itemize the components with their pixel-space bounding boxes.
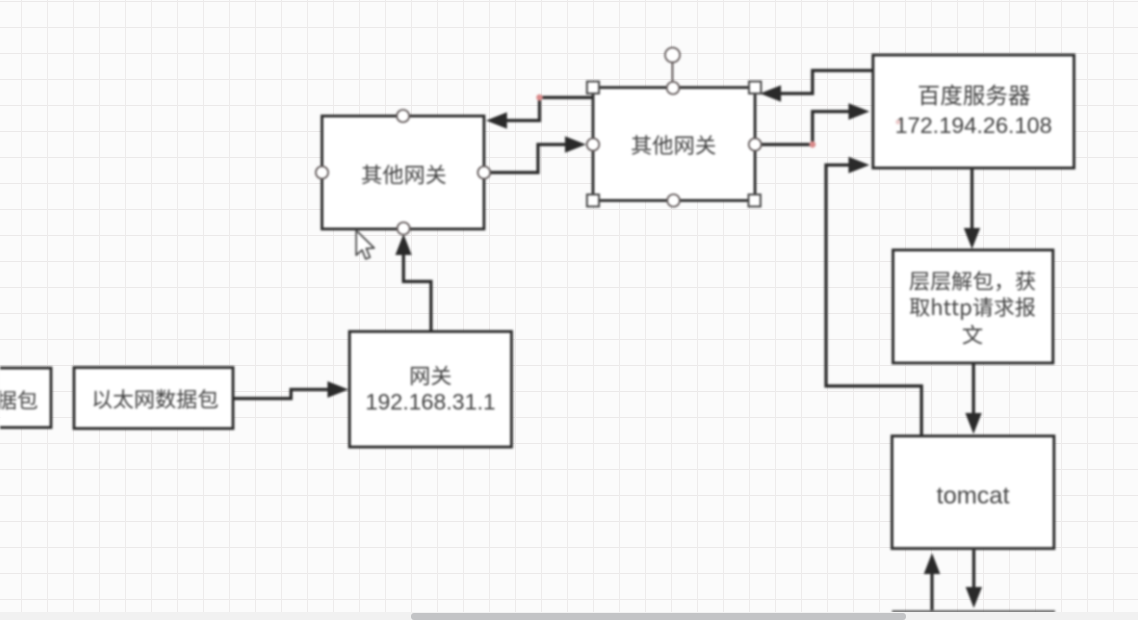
arrowhead into baidu-server left lower bbox=[849, 157, 870, 173]
wire: ethernet-packet to gateway bbox=[233, 390, 330, 399]
node: tomcat box bbox=[892, 436, 1054, 549]
wire: baidu-server back to other-gateway-2 (reply) bbox=[777, 71, 873, 94]
node: baidu-server box bbox=[873, 55, 1074, 168]
label: clipped box text 据包 bbox=[0, 390, 37, 409]
handle: other-gateway-1 left connection point bbox=[316, 166, 328, 178]
handle: other-gateway-2 top-middle bbox=[667, 82, 679, 94]
scrollbar thumb bbox=[411, 613, 906, 620]
svg-text:192.168.31.1: 192.168.31.1 bbox=[365, 390, 495, 415]
node: other-gateway-1 box bbox=[322, 116, 484, 229]
arrowhead into unpack box top bbox=[964, 228, 980, 249]
node: gateway box bbox=[350, 332, 512, 448]
wire: other-gateway-2 to baidu-server (request) bbox=[759, 112, 852, 145]
label: unpack line2 取http请求报 bbox=[910, 297, 1035, 320]
label: baidu-server line1 百度服务器 bbox=[919, 85, 1030, 106]
node: unpack box bbox=[893, 250, 1053, 363]
arrowhead into other-gateway-1 bottom bbox=[395, 234, 411, 255]
scrollbar track bbox=[0, 612, 1138, 620]
arrowhead into other-gateway-2 top-right bbox=[760, 85, 781, 101]
label: other-gateway-1 text 其他网关 bbox=[362, 165, 446, 185]
handle: other-gateway-2 right-middle bbox=[749, 138, 761, 150]
arrowhead into bottom box top bbox=[966, 587, 982, 608]
handle: other-gateway-2 bottom-middle bbox=[667, 194, 679, 206]
handle: other-gateway-2 bottom-right corner bbox=[749, 195, 761, 207]
endpoint dot on request wire to baidu-server bbox=[809, 141, 815, 147]
mouse cursor pointer bbox=[356, 230, 374, 259]
label: unpack line1 层层解包，获 bbox=[910, 271, 1036, 291]
label: unpack line3 文 bbox=[963, 325, 983, 345]
node: clipped data-packet box at left edge bbox=[0, 368, 51, 428]
wire: other-gateway-2 back to other-gateway-1 (reply) bbox=[505, 98, 592, 121]
handle: other-gateway-2 top-left corner bbox=[587, 82, 599, 94]
handle: other-gateway-2 rotation handle bbox=[665, 48, 680, 63]
arrowhead into tomcat bottom bbox=[924, 553, 940, 574]
arrowhead into baidu-server left upper bbox=[849, 103, 870, 119]
wire: unpack box down to tomcat bbox=[972, 362, 975, 414]
arrowhead into other-gateway-1 right bbox=[486, 112, 507, 128]
wire: gateway up to other-gateway-1 bbox=[404, 250, 432, 333]
svg-text:172.194.26.108: 172.194.26.108 bbox=[895, 113, 1052, 138]
handle: other-gateway-1 right connection point bbox=[478, 166, 490, 178]
arrowhead into gateway left bbox=[328, 381, 349, 397]
wire: baidu-server down to unpack box bbox=[970, 166, 973, 231]
endpoint dot on reply wire near other-gateway-2 bbox=[536, 94, 542, 100]
node: ethernet-packet box bbox=[74, 368, 233, 429]
handle: other-gateway-2 top-right corner bbox=[749, 82, 761, 94]
label: gateway line1 网关 bbox=[411, 366, 451, 386]
label: ethernet-packet text 以太网数据包 bbox=[94, 389, 218, 409]
wire: other-gateway-1 to other-gateway-2 (request) bbox=[489, 145, 569, 173]
node: partially visible box below tomcat bbox=[892, 610, 1055, 613]
faint endpoint dot inside baidu-server bbox=[896, 120, 901, 125]
handle: other-gateway-2 rotation stem bbox=[672, 62, 674, 82]
label: other-gateway-2 text 其他网关 bbox=[632, 135, 716, 155]
handle: other-gateway-1 top connection point bbox=[397, 110, 409, 122]
handle: other-gateway-2 bottom-left corner bbox=[587, 195, 599, 207]
svg-text:tomcat: tomcat bbox=[937, 483, 1010, 510]
handle: other-gateway-1 bottom connection point bbox=[397, 222, 409, 234]
wire: bottom box up to tomcat bbox=[930, 571, 933, 610]
arrowhead into other-gateway-2 left bbox=[565, 136, 586, 152]
handle: other-gateway-2 left-middle bbox=[587, 138, 599, 150]
wire: tomcat up to baidu-server bbox=[826, 165, 922, 437]
arrowhead into tomcat top bbox=[965, 413, 981, 434]
wire: tomcat down to bottom box bbox=[972, 550, 975, 590]
node: other-gateway-2 box (selected) bbox=[593, 88, 755, 201]
